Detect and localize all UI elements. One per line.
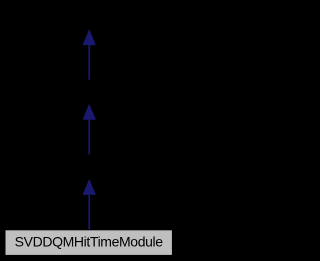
inheritance arrow 1 (to top node) bbox=[83, 30, 96, 81]
inheritance arrow 2 (middle) bbox=[83, 104, 96, 155]
node box 1 (top ancestor, invisible black box) bbox=[36, 5, 142, 31]
node box 3 (invisible black box) bbox=[36, 155, 142, 179]
node box SVDDQMHitTimeModule (current class, gray) bbox=[5, 230, 172, 256]
node box 2 (invisible black box) bbox=[36, 80, 142, 104]
svg-text:SVDDQMHitTimeModule: SVDDQMHitTimeModule bbox=[15, 234, 164, 250]
inheritance arrow 3 (to node above SVDDQMHitTimeModule) bbox=[83, 179, 96, 230]
